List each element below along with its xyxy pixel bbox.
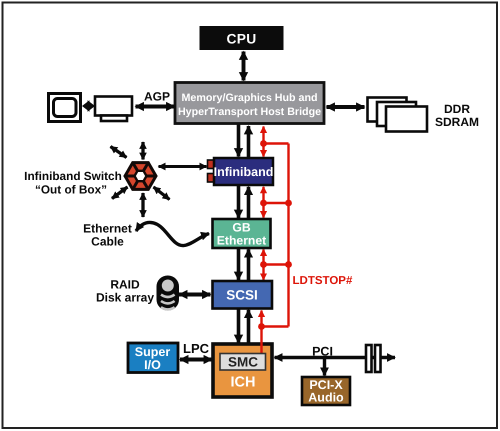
red arrow infiniband-GB [262, 187, 264, 218]
red h-line to trunk top [264, 142, 289, 144]
switch SW double arrow [112, 187, 128, 199]
svg-text:SMC: SMC [228, 355, 258, 370]
wire PCI branch down to PCI-X Audio [323, 358, 326, 376]
bus GB-SCSI down arrow [237, 249, 241, 281]
switch NW double arrow [111, 147, 127, 158]
junction dot gap2 [260, 200, 267, 207]
Super I/O box [128, 343, 178, 373]
red h-line gap2 [264, 202, 289, 204]
GB Ethernet box [213, 219, 271, 248]
svg-text:PCI: PCI [312, 345, 333, 359]
svg-text:I/O: I/O [144, 358, 161, 372]
red arrow GB-SCSI [262, 250, 264, 280]
bus SCSI-ICH down arrow [237, 309, 241, 343]
Memory/Graphics Hub box [175, 83, 324, 124]
wire Super I/O to ICH (double arrow) [180, 358, 212, 362]
bus GB-SCSI up arrow [247, 249, 251, 280]
svg-text:Ethernet: Ethernet [83, 222, 132, 236]
switch N double arrow [141, 142, 144, 160]
svg-text:“Out of Box”: “Out of Box” [35, 183, 107, 197]
red h-line gap4 [262, 325, 289, 327]
switch S double arrow [141, 193, 144, 217]
wire RAID to SCSI (double arrow) [179, 293, 211, 297]
Infiniband Switch label [24, 169, 122, 197]
ICH box [213, 344, 272, 397]
svg-text:Audio: Audio [308, 391, 344, 405]
svg-text:Memory/Graphics Hub and: Memory/Graphics Hub and [182, 92, 318, 104]
SCSI box [213, 281, 273, 309]
bus hub-infiniband up arrow [247, 126, 251, 158]
display device icon [95, 97, 132, 122]
wire monitor to display device (double arrow) [82, 100, 95, 112]
bus infiniband-GB down arrow [237, 186, 241, 218]
DDR SDRAM label [435, 102, 479, 129]
red junction dots [258, 140, 292, 330]
svg-text:Ethernet: Ethernet [217, 234, 266, 248]
svg-text:GB: GB [232, 221, 250, 235]
Ethernet Cable label [83, 222, 132, 249]
svg-text:ICH: ICH [231, 375, 256, 391]
svg-text:LDTSTOP#: LDTSTOP# [293, 275, 353, 287]
junction dot gap4 [258, 323, 265, 330]
svg-text:Infiniband: Infiniband [214, 165, 274, 179]
svg-text:AGP: AGP [144, 90, 170, 104]
wire AGP device to hub (double arrow) [136, 105, 175, 109]
red arrow hub-infiniband [262, 127, 264, 157]
PCI-X Audio box [302, 377, 350, 405]
SMC box [220, 354, 266, 371]
svg-text:Cable: Cable [91, 235, 124, 249]
wire CPU to Hub (double arrow) [242, 52, 246, 81]
PCI slot icons [366, 345, 381, 372]
red LDTSTOP net [264, 127, 289, 327]
svg-text:Infiniband Switch: Infiniband Switch [24, 169, 122, 183]
svg-text:HyperTransport Host Bridge: HyperTransport Host Bridge [178, 106, 321, 118]
svg-text:LPC: LPC [183, 341, 210, 356]
junction dot gap3 [260, 261, 267, 268]
CPU box U-CPU [200, 26, 284, 50]
switch SE double arrow [154, 187, 170, 200]
bus hub-infiniband down arrow [237, 125, 241, 157]
wire hub to DDR SDRAM (double arrow) [327, 105, 365, 109]
svg-text:RAID: RAID [110, 278, 140, 292]
red trunk vertical [287, 144, 289, 327]
svg-text:DDR: DDR [444, 102, 470, 116]
RAID Disk array label [96, 278, 154, 305]
red h-line gap3 [264, 263, 289, 265]
ethernet cable squiggle wire [136, 222, 209, 245]
svg-text:SDRAM: SDRAM [435, 115, 479, 129]
wire switch to Infiniband (double arrow) [159, 165, 207, 168]
DDR SDRAM module icons [368, 98, 428, 132]
svg-text:CPU: CPU [226, 32, 256, 47]
junction dot gap1 [260, 140, 267, 147]
Infiniband box [214, 158, 274, 185]
Infiniband port pins [208, 160, 215, 182]
red wire SCSI to SMC [260, 311, 262, 355]
PCI horizontal wire with arrows [275, 356, 396, 359]
svg-text:Disk array: Disk array [96, 291, 154, 305]
Infiniband switch hexagon icon [125, 163, 156, 190]
junction dot gap2 trunk [285, 200, 292, 207]
svg-text:Super: Super [135, 345, 171, 359]
bus infiniband-GB up arrow [247, 187, 251, 219]
bus SCSI-ICH up arrow [247, 310, 251, 344]
junction dot gap3 trunk [285, 261, 292, 268]
monitor icon [49, 94, 81, 122]
svg-text:SCSI: SCSI [226, 288, 258, 303]
RAID disk stack icon [157, 276, 180, 311]
